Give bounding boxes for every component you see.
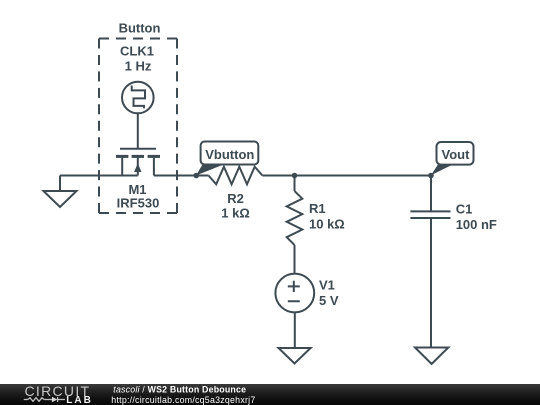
svg-text:1 Hz: 1 Hz <box>125 59 152 74</box>
svg-text:V1: V1 <box>319 278 335 293</box>
svg-text:C1: C1 <box>456 202 473 217</box>
svg-text:Button: Button <box>119 20 161 35</box>
svg-text:10 kΩ: 10 kΩ <box>309 216 345 231</box>
svg-text:Vout: Vout <box>442 147 471 162</box>
svg-text:1 kΩ: 1 kΩ <box>221 206 250 221</box>
svg-text:CLK1: CLK1 <box>120 44 154 59</box>
svg-text:R1: R1 <box>309 201 326 216</box>
svg-text:100 nF: 100 nF <box>456 217 497 232</box>
svg-text:5 V: 5 V <box>319 293 339 308</box>
svg-text:R2: R2 <box>227 191 244 206</box>
svg-text:Vbutton: Vbutton <box>205 147 254 162</box>
svg-text:IRF530: IRF530 <box>117 196 160 211</box>
